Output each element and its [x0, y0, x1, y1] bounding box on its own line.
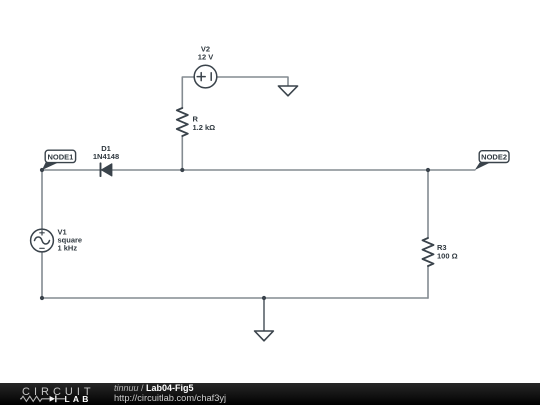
resistor R3	[423, 238, 434, 266]
svg-text:100 Ω: 100 Ω	[437, 251, 458, 260]
svg-text:NODE2: NODE2	[481, 153, 507, 162]
node NODE1 flag	[42, 150, 76, 170]
wire	[41, 170, 43, 229]
footer line 2	[114, 393, 226, 403]
node junction dot	[40, 168, 44, 172]
CircuitLab logo	[0, 383, 100, 405]
wire	[217, 77, 288, 86]
wire	[181, 136, 183, 170]
wire	[41, 252, 43, 298]
svg-text:1.2 kΩ: 1.2 kΩ	[193, 123, 216, 132]
node junction dot	[262, 296, 266, 300]
svg-text:LAB: LAB	[65, 394, 92, 404]
voltage source V1	[31, 229, 54, 252]
node NODE2 flag	[475, 151, 509, 170]
footer line 1	[114, 383, 194, 393]
svg-text:1N4148: 1N4148	[93, 152, 119, 161]
svg-text:NODE1: NODE1	[47, 153, 73, 162]
wire	[42, 169, 475, 171]
wire	[427, 170, 429, 238]
diode D1	[101, 163, 112, 176]
node junction dot	[40, 296, 44, 300]
ground (bottom)	[255, 331, 274, 341]
wire	[42, 297, 428, 299]
wire	[263, 298, 265, 331]
svg-text:1 kHz: 1 kHz	[58, 244, 78, 253]
svg-text:12 V: 12 V	[198, 53, 213, 62]
resistor R	[177, 108, 188, 136]
node junction dot	[426, 168, 430, 172]
wire	[182, 77, 194, 108]
voltage source V2	[194, 65, 217, 88]
wire	[427, 266, 429, 298]
ground (top, V2)	[278, 86, 297, 96]
node junction dot	[180, 168, 184, 172]
